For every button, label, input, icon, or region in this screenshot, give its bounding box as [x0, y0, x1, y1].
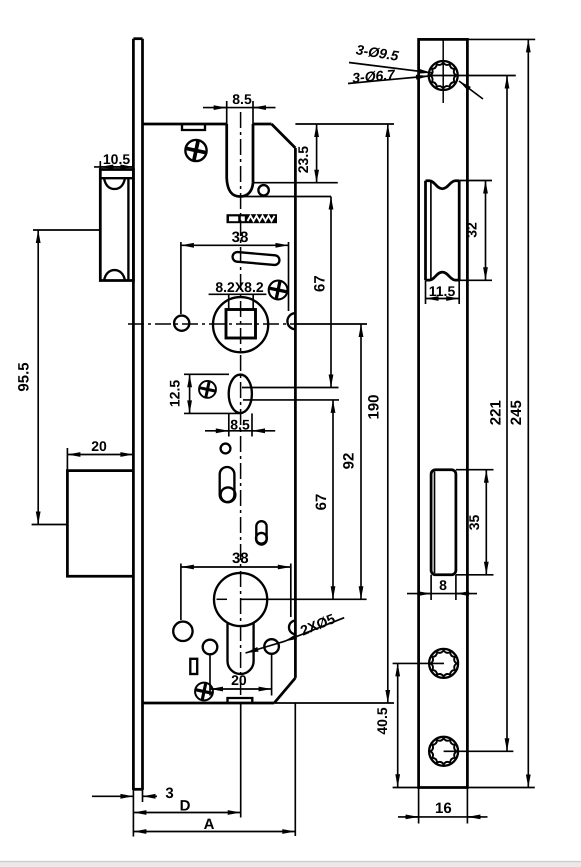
- svg-text:11.5: 11.5: [429, 283, 456, 299]
- svg-text:190: 190: [366, 394, 383, 419]
- svg-text:245: 245: [508, 400, 525, 425]
- svg-text:35: 35: [466, 515, 482, 531]
- svg-text:20: 20: [231, 672, 247, 688]
- svg-text:12.5: 12.5: [167, 380, 183, 407]
- svg-text:8.2X8.2: 8.2X8.2: [215, 279, 263, 295]
- svg-text:67: 67: [311, 275, 328, 292]
- svg-text:10.5: 10.5: [103, 151, 130, 167]
- svg-text:23.5: 23.5: [295, 146, 311, 173]
- svg-text:38: 38: [232, 550, 249, 567]
- svg-text:95.5: 95.5: [16, 362, 33, 391]
- svg-text:32: 32: [463, 222, 479, 238]
- svg-text:8.5: 8.5: [232, 91, 252, 107]
- svg-text:8.5: 8.5: [230, 417, 250, 433]
- svg-text:38: 38: [232, 229, 249, 246]
- svg-text:A: A: [204, 816, 215, 833]
- svg-text:16: 16: [435, 800, 452, 817]
- svg-text:67: 67: [313, 494, 330, 511]
- svg-text:8: 8: [439, 577, 447, 593]
- svg-text:20: 20: [91, 438, 107, 454]
- svg-text:221: 221: [487, 400, 504, 425]
- svg-text:92: 92: [341, 453, 358, 470]
- svg-text:40.5: 40.5: [374, 707, 390, 734]
- svg-text:D: D: [180, 798, 191, 815]
- svg-text:3: 3: [165, 785, 173, 802]
